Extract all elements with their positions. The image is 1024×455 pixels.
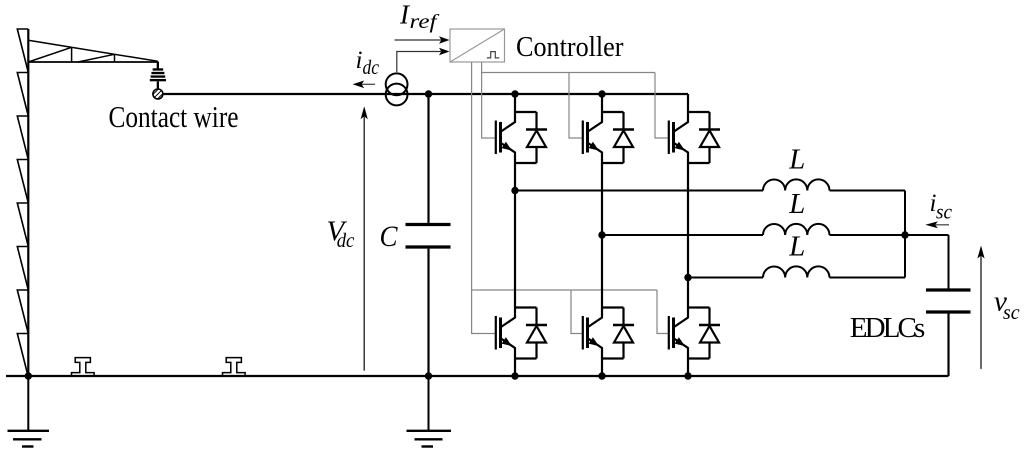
arrow v_sc [980, 251, 982, 369]
wire: to EDLC top plate [948, 235, 950, 289]
svg-text:dc: dc [337, 230, 355, 252]
IGBT Q6 [669, 308, 710, 359]
leg 2: feed from DC+ rail [601, 94, 603, 112]
ground (pole) [8, 377, 50, 447]
inductor L1 [763, 179, 829, 190]
leg 2: mid vertical (phase node) [601, 163, 603, 308]
rail symbol 2 [223, 358, 246, 377]
IGBT Q1 [496, 112, 537, 163]
diode D2 [613, 112, 634, 163]
leg 3: to return rail [687, 359, 689, 377]
leg 1: to return rail [514, 359, 516, 377]
diode D5 [613, 308, 634, 359]
IGBT Q4 [496, 308, 537, 359]
arrow i_sc [935, 224, 949, 226]
arrow I_ref into controller [395, 39, 442, 41]
svg-text:C: C [380, 221, 398, 253]
pulse glyph inside controller [487, 52, 500, 58]
leg 2: to return rail [601, 359, 603, 377]
IGBT Q2 [583, 112, 624, 163]
svg-text:i: i [356, 47, 363, 74]
svg-text:L: L [788, 189, 805, 220]
junction dots on return rail [25, 372, 32, 379]
insulator [150, 62, 166, 90]
gate wiring: controller to top IGBT gates (gray) [482, 62, 669, 138]
inductor L3 [763, 266, 829, 277]
wire: phase A to L1 [515, 190, 763, 192]
junction dot tie line [901, 231, 908, 238]
diode D4 [526, 308, 547, 359]
diode D6 [699, 308, 720, 359]
catenary pole (lattice mast) [17, 29, 28, 377]
wire: contact wire / DC+ rail [163, 93, 688, 95]
wire: phase C to L3 [688, 277, 763, 279]
inductor L2 [763, 224, 829, 235]
wire: inductor tie line [904, 191, 906, 278]
leg 1: mid vertical (phase node) [514, 163, 516, 308]
EDLC capacitor [926, 290, 971, 376]
junction dots at phase nodes [511, 187, 518, 194]
svg-text:sc: sc [1003, 300, 1020, 324]
svg-text:L: L [788, 232, 805, 263]
svg-text:EDLCs: EDLCs [850, 312, 926, 344]
ground (DC bus) [407, 376, 452, 447]
controller box U1 [450, 29, 505, 62]
wire: sensor feedback to controller [397, 52, 441, 73]
svg-text:Contact wire: Contact wire [109, 100, 239, 134]
leg 1: feed from DC+ rail [514, 94, 516, 112]
wire: bottom return rail [6, 375, 949, 377]
leg 3: feed from DC+ rail [687, 94, 689, 112]
catenary arm truss [28, 40, 157, 62]
arrow V_dc [363, 112, 365, 371]
IGBT Q3 [669, 112, 710, 163]
diode D1 [526, 112, 547, 163]
svg-text:dc: dc [363, 58, 380, 79]
svg-text:Controller: Controller [516, 31, 624, 63]
IGBT Q5 [583, 308, 624, 359]
current sensor (i_dc transducer) [386, 73, 408, 105]
arrow i_dc [360, 83, 375, 85]
contact point (hatched circle) [151, 88, 164, 101]
junction dots on DC+ rail [425, 90, 432, 97]
rail symbol 1 [72, 358, 95, 377]
leg 3: mid vertical (phase node) [687, 163, 689, 308]
svg-text:ref: ref [410, 12, 440, 33]
svg-text:sc: sc [936, 200, 953, 224]
capacitor C [406, 94, 451, 376]
diode D3 [699, 112, 720, 163]
wire: phase B to L2 [602, 234, 763, 236]
gate wiring: controller to bottom IGBT gates (gray) [472, 62, 669, 334]
svg-text:L: L [788, 145, 805, 176]
